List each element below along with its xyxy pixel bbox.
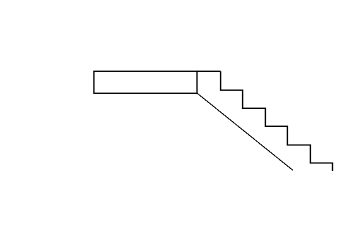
top tread extension wire [197, 70, 221, 72]
stringer diagonal [197, 93, 293, 170]
staircase steps [221, 71, 333, 171]
landing platform rectangle [94, 71, 197, 93]
